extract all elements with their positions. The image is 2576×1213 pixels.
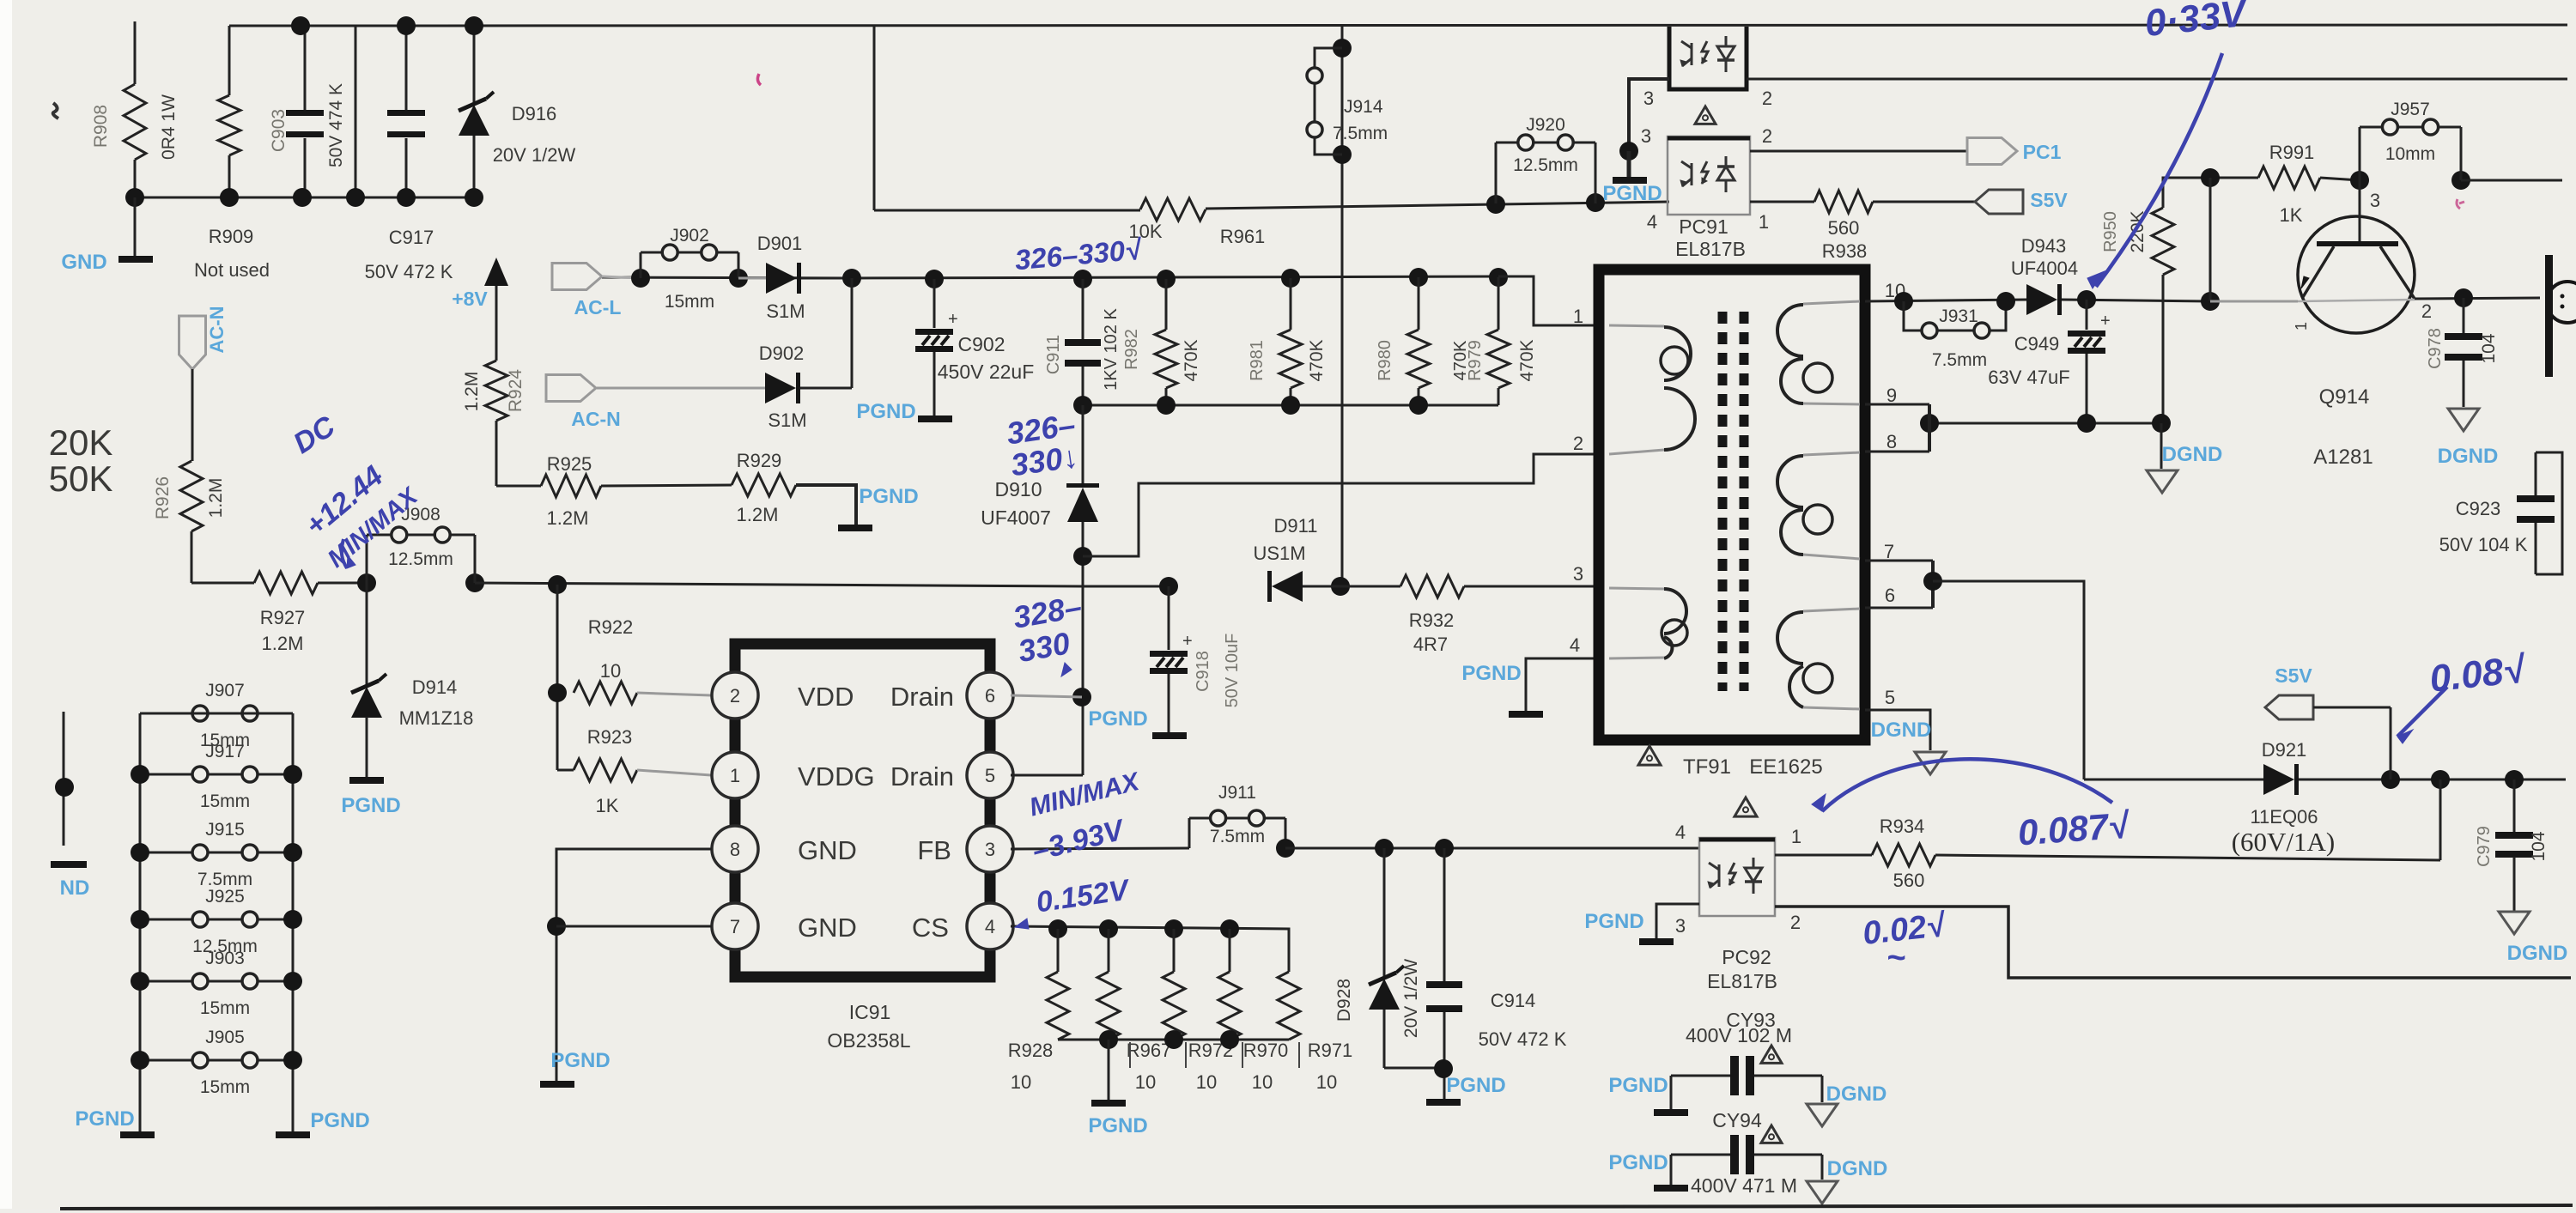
svg-text:R929: R929 [737,450,782,471]
wire vertical J914 net [1341,26,1344,586]
svg-text:J920: J920 [1526,115,1565,135]
IC91 pin 8 [712,826,758,872]
svg-text:7: 7 [730,916,740,937]
wire [2320,178,2360,180]
ground PGND [838,525,872,531]
ground PGND [1152,732,1187,739]
transistor Q914 [2298,216,2415,333]
diode D902 [765,373,796,403]
svg-text:CS: CS [912,913,949,943]
svg-text:1.2M: 1.2M [547,507,589,529]
svg-text:50K: 50K [49,458,113,499]
resistor R981 [1281,269,1300,288]
svg-text:15mm: 15mm [200,791,250,811]
svg-text:EL817B: EL817B [1707,970,1777,992]
svg-text:A1281: A1281 [2313,446,2372,469]
IC91 pin 2 [712,672,758,719]
zener diode D916 [473,26,476,105]
svg-text:J903: J903 [205,949,245,968]
connector pad S5V [1975,190,2023,214]
svg-text:7: 7 [1884,541,1894,562]
svg-text:15mm: 15mm [200,998,250,1018]
svg-text:8: 8 [730,839,740,860]
resistor R908 [134,21,137,84]
ground PGND [1654,1109,1688,1116]
jumper J920 [1486,195,1505,214]
svg-text:R950: R950 [2101,211,2120,252]
warning symbol [1695,106,1716,124]
jumper J914 vertical [1333,39,1352,58]
svg-text:5: 5 [985,765,995,786]
svg-text:PGND: PGND [859,485,918,508]
wire [1285,847,1699,850]
wire [191,369,194,461]
resistor R925 [496,485,541,488]
ground PGND [918,415,952,422]
zener diode D914 [366,583,368,687]
resistor R909 (not used) [229,25,301,27]
svg-text:50V 472 K: 50V 472 K [1479,1028,1567,1050]
svg-text:1.2M: 1.2M [462,372,482,412]
svg-text:10: 10 [1135,1071,1156,1093]
svg-text:DGND: DGND [1826,1083,1887,1106]
ground PGND [349,777,384,784]
svg-text:10: 10 [1196,1071,1217,1093]
svg-text:6: 6 [1885,585,1895,606]
jumper J905 [140,1059,192,1062]
svg-text:R982: R982 [1122,329,1141,370]
svg-text:0.087√: 0.087√ [2016,804,2131,852]
svg-text:15mm: 15mm [665,292,714,312]
resistor R923 [557,769,574,772]
svg-text:2: 2 [730,685,740,707]
svg-text:UF4004: UF4004 [2011,258,2078,279]
svg-text:11EQ06: 11EQ06 [2250,806,2318,828]
wire [2299,779,2566,781]
diode D943 [2026,284,2057,315]
svg-text:R979: R979 [1466,340,1485,381]
connector pad AC-N [546,375,596,402]
wire snubber bottom rail [1083,404,1498,407]
svg-text:PGND: PGND [1608,1074,1668,1097]
capacitor C978 [2463,298,2465,335]
jumper J925 [140,919,192,921]
wire FB [1011,848,1189,849]
svg-text:R961: R961 [1220,226,1266,247]
svg-text:C923: C923 [2456,498,2501,519]
wire opto pin2 rail [1747,78,2567,81]
ground DGND [2499,912,2530,934]
svg-text:S5V: S5V [2275,664,2312,687]
svg-text:0R4 1W: 0R4 1W [159,94,179,160]
jumper J908 [357,573,376,592]
svg-text:PGND: PGND [1602,182,1662,205]
svg-text:J925: J925 [205,887,245,907]
resistor R929 [732,474,796,496]
ground PGND [1108,1040,1110,1100]
svg-text:2: 2 [1762,88,1772,109]
capacitor C917 [387,110,425,116]
svg-text:1KV 102 K: 1KV 102 K [1102,308,1121,391]
svg-text:D943: D943 [2021,235,2067,257]
svg-text:3: 3 [985,839,995,860]
svg-text:PGND: PGND [1088,707,1147,731]
svg-text:470K: 470K [1307,339,1327,381]
svg-text:TF91: TF91 [1683,755,1731,779]
svg-text:D901: D901 [757,233,803,254]
wire pins 9-8 [1865,403,1929,406]
transformer core [1718,312,1728,691]
wire drain riser [1082,522,1084,775]
svg-text:AC-N: AC-N [206,306,228,354]
optocoupler PC91 [1668,136,1750,215]
resistor R922 [548,683,567,702]
capacitor C914 [1443,848,1446,982]
capacitor C903 [304,26,307,110]
IC91 pin 6 [967,672,1013,719]
svg-text:EE1625: EE1625 [1749,755,1822,779]
svg-text:12.5mm: 12.5mm [1513,155,1578,175]
IC91 pin 3 [967,826,1013,872]
wire [318,582,367,585]
wire [601,485,732,486]
svg-text:400V 102 M: 400V 102 M [1686,1024,1792,1046]
warning symbol [1761,1046,1782,1063]
svg-text:1: 1 [1791,826,1801,847]
svg-text:~: ~ [1886,940,1905,976]
svg-text:470K: 470K [1182,339,1201,381]
wire [800,387,852,390]
svg-text:1.2M: 1.2M [206,478,226,519]
power arrow +8V [484,258,508,286]
svg-text:1: 1 [2293,322,2310,331]
optocoupler PC92 [1699,838,1775,916]
svg-text:+8V: +8V [452,288,488,310]
wire left stub [63,712,65,846]
svg-text:R927: R927 [260,607,306,628]
svg-text:7.5mm: 7.5mm [1333,124,1388,143]
resistor R970 [1229,929,1231,972]
wire [1873,201,1975,203]
resistor R961 [1140,198,1206,221]
wire [602,276,641,278]
wire emitter [2210,300,2298,303]
svg-text:R923: R923 [587,726,633,748]
svg-text:3: 3 [1643,88,1654,109]
transformer TF91 body [1599,270,1865,740]
svg-text:J905: J905 [205,1028,245,1047]
resistor R927 [254,572,318,594]
wire drain to transformer pin2 [1073,547,1092,566]
resistor R950 [2163,178,2210,208]
jumper ladder rails [140,713,293,715]
jumper J902 [631,269,650,288]
svg-text:6: 6 [985,685,995,707]
svg-text:4: 4 [1647,211,1657,233]
svg-text:12.5mm: 12.5mm [388,549,453,569]
ground DGND [2448,409,2479,431]
wire pin10 row [1865,300,2027,301]
svg-text:3: 3 [2370,190,2380,211]
svg-text:50V 472 K: 50V 472 K [365,261,453,282]
svg-text:R967: R967 [1127,1040,1172,1061]
wire to transformer pin3 [1464,585,1599,588]
svg-text:1: 1 [1759,211,1769,233]
svg-text:PC92: PC92 [1722,946,1771,968]
svg-text:R932: R932 [1409,610,1455,631]
label separators [1129,1042,1131,1068]
wire [2461,179,2562,182]
svg-text:R908: R908 [91,105,111,148]
svg-text:C918: C918 [1194,651,1212,692]
svg-text:ND: ND [60,876,90,900]
svg-text:2: 2 [1573,433,1583,454]
svg-text:C903: C903 [269,109,289,152]
capacitor C949 [2086,300,2088,330]
ground ND [51,861,87,868]
svg-text:DGND: DGND [2438,445,2499,468]
svg-text:4: 4 [1570,634,1580,656]
svg-text:1: 1 [730,765,740,786]
IC91 pin 5 [967,752,1013,798]
transformer secondary winding 8-7 [1803,452,1860,455]
svg-text:FB: FB [917,835,951,865]
svg-text:GND: GND [61,251,106,274]
resistor R971 [1278,972,1300,1040]
svg-text:VDD: VDD [798,682,854,712]
svg-text:10: 10 [600,660,621,682]
svg-text:20K: 20K [49,422,113,463]
svg-text:J915: J915 [205,820,245,840]
jumper J915 [140,852,192,854]
wire AC-L bus [602,276,1498,278]
capacitor C911 [1073,270,1092,288]
svg-text:104: 104 [2529,831,2549,861]
wire [2313,707,2391,709]
page mark pink [757,74,761,85]
wire [1935,855,2440,860]
svg-text:10: 10 [1316,1071,1337,1093]
IC91 pin 4 [967,903,1013,949]
resistor R932 [1400,575,1464,597]
warning symbol [1735,798,1757,816]
ground DGND [2160,423,2163,469]
wire bus [475,583,1083,586]
IC91 pin 1 [712,752,758,798]
wire D921 row [2084,779,2264,781]
svg-text:+: + [948,310,958,329]
svg-text:D916: D916 [512,103,557,124]
svg-text:450V 22uF: 450V 22uF [938,361,1035,383]
svg-text:PGND: PGND [1584,910,1643,933]
svg-text:PGND: PGND [856,400,915,423]
wire R991 row [2210,177,2258,179]
svg-text:C978: C978 [2426,328,2445,369]
svg-text:R981: R981 [1248,340,1267,381]
svg-text:CY94: CY94 [1712,1109,1762,1131]
svg-text:R970: R970 [1243,1040,1289,1061]
svg-text:R922: R922 [588,616,634,638]
resistor R926 [180,461,203,531]
svg-text:3: 3 [1641,125,1651,147]
svg-text:R925: R925 [547,453,592,475]
svg-text:7.5mm: 7.5mm [1932,350,1987,370]
svg-text:J902: J902 [670,226,709,246]
svg-text:D928: D928 [1334,979,1354,1022]
svg-text:2: 2 [2421,300,2432,322]
wire top rail [301,25,2567,26]
warning symbol [1638,746,1661,765]
connector pad AC-L [552,264,602,290]
svg-text:GND: GND [798,913,857,943]
wire through transistor [2298,300,2415,301]
svg-text:DGND: DGND [1871,719,1932,742]
transformer secondary winding 6-5 [1803,609,1860,611]
svg-text:PGND: PGND [1088,1114,1147,1137]
jumper J903 [140,980,192,983]
ground DGND [1807,1181,1838,1204]
svg-text:+: + [2100,312,2111,331]
svg-text:Not used: Not used [194,259,270,281]
svg-text:63V 47uF: 63V 47uF [1988,367,2069,388]
resistor R980 [1409,268,1428,287]
jumper J957 [2350,171,2369,190]
transformer pin4 lead [1526,658,1599,711]
svg-text:PC91: PC91 [1679,215,1728,238]
svg-text:C911: C911 [1044,335,1063,374]
svg-text:DGND: DGND [2162,443,2223,466]
svg-text:J911: J911 [1218,783,1256,803]
jumper J911 [1188,818,1191,848]
svg-text:C917: C917 [389,227,434,248]
wire [355,26,357,197]
capacitor C923 [2536,452,2562,574]
capacitor C979 [2513,779,2516,834]
svg-text:1K: 1K [596,795,619,816]
ground DGND [1915,752,1946,774]
ground DGND [1807,1104,1838,1126]
svg-text:3: 3 [1675,915,1686,937]
wire [597,387,765,390]
connector pad PC1 [1967,138,2017,165]
svg-text:Drain: Drain [890,682,954,712]
wire resistor bank rail [1061,1039,1289,1041]
svg-text:R980: R980 [1376,340,1394,381]
svg-text:VDDG: VDDG [798,761,875,791]
svg-text:15mm: 15mm [200,1077,250,1097]
ground PGND [1654,1185,1688,1192]
svg-text:20V 1/2W: 20V 1/2W [493,144,576,166]
capacitor C918 [1159,577,1178,596]
wire collector [2415,298,2540,299]
svg-text:C914: C914 [1491,990,1536,1011]
warning symbol [1761,1125,1782,1143]
svg-text:C949: C949 [2014,333,2060,355]
svg-text:8: 8 [1886,431,1897,452]
connector right edge [2545,255,2553,377]
svg-text:R934: R934 [1880,816,1925,837]
resistor R928 [1057,929,1060,972]
svg-text:D921: D921 [2262,739,2307,761]
svg-text:J914: J914 [1344,97,1383,117]
wire [796,485,856,525]
svg-text:PGND: PGND [341,794,400,817]
wire [1206,202,1669,209]
wire to D921 row [1933,581,2084,779]
svg-text:400V 471 M: 400V 471 M [1691,1174,1797,1197]
diode D911 [1272,571,1303,602]
svg-text:IC91: IC91 [849,1001,891,1023]
svg-text:1K: 1K [2280,204,2303,226]
ground PGND [540,1081,574,1088]
svg-text:9: 9 [1886,385,1897,406]
svg-text:S1M: S1M [768,409,806,431]
svg-text:PGND: PGND [1608,1151,1668,1174]
svg-text:1.2M: 1.2M [737,504,779,525]
transformer secondary winding 10-9 [1803,301,1860,304]
svg-text:560: 560 [1828,217,1860,239]
diode D921 [2263,764,2294,795]
svg-text:R926: R926 [153,476,173,519]
svg-text:S1M: S1M [766,300,805,322]
ground PGND [1509,711,1543,718]
svg-text:10: 10 [1011,1071,1031,1093]
svg-text:R928: R928 [1008,1040,1054,1061]
transformer primary winding 3-4 [1609,588,1664,589]
svg-text:US1M: US1M [1253,543,1305,564]
resistor R938 [1814,191,1873,213]
svg-text:PC1: PC1 [2023,141,2062,163]
jumper J917 [140,773,192,776]
wire C917 column [405,26,408,110]
svg-text:50V 10uF: 50V 10uF [1223,634,1242,708]
wire to transformer pin1 [1498,276,1599,325]
jumper J907 [140,713,192,715]
connector pad S5V output [2265,695,2313,719]
svg-text:J931: J931 [1939,306,1978,326]
resistor R991 [2258,167,2320,189]
wire VDD branch [556,585,559,770]
wire PC91 pin1 [1750,201,1814,203]
svg-text:50V 474 K: 50V 474 K [326,83,346,167]
page mark [53,103,58,118]
wire PC92 pin2 [1775,907,2571,978]
svg-text:D914: D914 [412,676,458,698]
svg-text:GND: GND [798,835,857,865]
svg-text:560: 560 [1893,870,1925,891]
ground PGND [1639,938,1674,945]
transformer primary winding 1-2 [1609,325,1664,326]
svg-text:AC-N: AC-N [571,408,621,430]
svg-text:OB2358L: OB2358L [827,1029,910,1052]
ground GND [134,197,137,256]
wire R961 row [873,26,876,210]
wire opto pin3 [1629,79,1669,151]
IC IC91 OB2358L body [735,644,990,977]
connector pad AC-N vertical [179,316,206,369]
svg-text:1: 1 [1573,306,1583,327]
svg-text:Drain: Drain [890,761,954,791]
svg-text:104: 104 [2479,333,2499,363]
svg-text:J917: J917 [205,742,245,761]
svg-text:C979: C979 [2475,826,2494,867]
wire secondary ground rail [1929,422,2161,425]
wire [2062,300,2210,301]
svg-text:R991: R991 [2269,142,2315,163]
svg-text:(60V/1A): (60V/1A) [2232,827,2336,857]
capacitor C902 [925,270,944,288]
svg-text:MM1Z18: MM1Z18 [399,707,474,729]
